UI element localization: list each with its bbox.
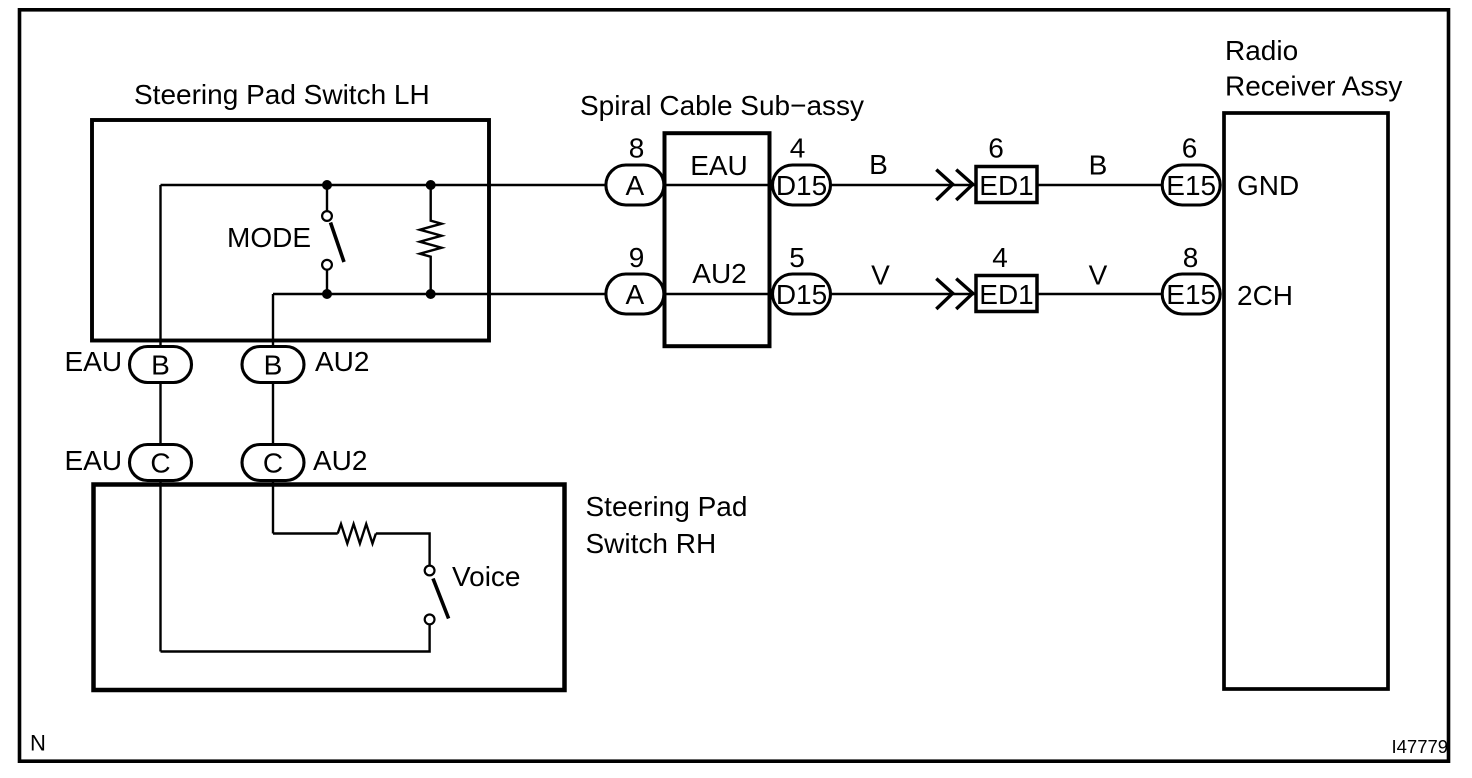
svg-text:AU2: AU2 — [692, 258, 746, 289]
box Radio Receiver Assy — [1224, 113, 1388, 689]
svg-text:4: 4 — [790, 133, 806, 164]
connector oval A row2 — [606, 274, 664, 314]
connector oval D15 row1 — [773, 165, 831, 205]
connector oval C EAU — [130, 445, 192, 481]
svg-text:A: A — [626, 170, 645, 201]
svg-text:Steering Pad Switch LH: Steering Pad Switch LH — [134, 79, 430, 110]
svg-text:C: C — [150, 448, 170, 479]
svg-text:Spiral Cable Sub−assy: Spiral Cable Sub−assy — [580, 90, 864, 121]
svg-text:V: V — [871, 260, 890, 291]
wire row1 horizontal — [161, 184, 1164, 186]
relay block ED1 row2 — [976, 276, 1037, 312]
svg-text:B: B — [151, 350, 170, 381]
svg-text:ED1: ED1 — [979, 170, 1033, 201]
wire RH to switch — [376, 534, 430, 566]
svg-text:5: 5 — [789, 242, 805, 273]
svg-text:2CH: 2CH — [1237, 280, 1293, 311]
relay block ED1 row1 — [976, 167, 1037, 203]
svg-text:ED1: ED1 — [979, 279, 1033, 310]
svg-text:B: B — [1089, 150, 1108, 181]
wire RH top horizontal — [273, 532, 338, 534]
wire row2 horizontal — [273, 293, 1163, 295]
svg-text:4: 4 — [992, 242, 1008, 273]
svg-text:MODE: MODE — [227, 222, 311, 253]
connector oval A row1 — [606, 165, 664, 205]
svg-text:AU2: AU2 — [313, 445, 367, 476]
switch MODE — [326, 185, 328, 211]
chevrons row1 — [936, 170, 952, 200]
wire vertical EAU branch — [159, 185, 161, 652]
connector oval B EAU — [130, 347, 192, 383]
svg-text:EAU: EAU — [65, 346, 123, 377]
svg-text:D15: D15 — [776, 279, 827, 310]
svg-text:8: 8 — [1183, 242, 1199, 273]
svg-text:N: N — [30, 731, 46, 756]
box Spiral Cable Sub-assy — [665, 133, 770, 346]
svg-text:C: C — [263, 448, 283, 479]
svg-text:B: B — [869, 149, 888, 180]
box Steering Pad Switch RH — [94, 485, 565, 691]
svg-text:AU2: AU2 — [315, 346, 369, 377]
svg-text:Switch RH: Switch RH — [586, 528, 717, 559]
junction dots — [322, 180, 332, 190]
box Steering Pad Switch LH — [92, 120, 489, 341]
svg-text:I47779: I47779 — [1392, 736, 1449, 757]
svg-text:EAU: EAU — [65, 445, 123, 476]
svg-text:EAU: EAU — [690, 150, 748, 181]
svg-text:Steering Pad: Steering Pad — [586, 491, 748, 522]
svg-text:Voice: Voice — [452, 561, 521, 592]
svg-text:B: B — [264, 350, 283, 381]
connector oval B AU2 — [242, 347, 304, 383]
svg-text:E15: E15 — [1166, 279, 1216, 310]
switch Voice circles and blade — [425, 566, 435, 576]
svg-text:Radio: Radio — [1225, 35, 1298, 66]
resistor horizontal RH — [338, 524, 376, 544]
wire RH bottom — [161, 625, 430, 652]
svg-text:9: 9 — [629, 242, 645, 273]
svg-text:D15: D15 — [776, 170, 827, 201]
chevrons row2 — [936, 279, 952, 309]
svg-text:E15: E15 — [1166, 170, 1216, 201]
svg-text:V: V — [1089, 260, 1108, 291]
connector oval E15 row1 — [1162, 165, 1220, 205]
svg-text:A: A — [626, 279, 645, 310]
connector oval E15 row2 — [1162, 274, 1220, 314]
svg-text:8: 8 — [629, 133, 645, 164]
svg-text:6: 6 — [988, 133, 1004, 164]
svg-text:Receiver Assy: Receiver Assy — [1225, 71, 1402, 102]
svg-text:GND: GND — [1237, 170, 1299, 201]
connector oval D15 row2 — [773, 274, 831, 314]
svg-text:6: 6 — [1182, 133, 1198, 164]
wire vertical AU2 branch — [272, 294, 274, 534]
connector oval C AU2 — [242, 445, 304, 481]
resistor vertical MODE — [420, 185, 442, 294]
